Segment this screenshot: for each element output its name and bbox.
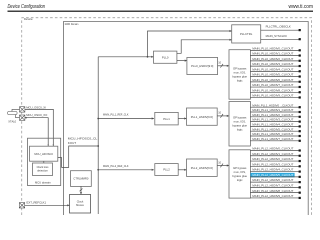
svg-text:logic: logic: [237, 128, 243, 132]
wire MAIN_PLL0_HSDIV8_CLKOUT: [250, 88, 300, 93]
svg-text:MAIN_PLL0_HSDIV3_CLKOUT: MAIN_PLL0_HSDIV3_CLKOUT: [252, 62, 293, 66]
wire MAIN_PLL1_HSDIV6_CLKOUT: [250, 132, 300, 137]
svg-text:bypass glue: bypass glue: [232, 74, 247, 78]
wire PLL1_HSDIV to bypass mux: [217, 111, 229, 118]
svg-text:MCU_HFOSC0_CL: MCU_HFOSC0_CL: [68, 136, 98, 140]
node PLL2 bypass mux: [229, 150, 250, 198]
pll PLL1: [155, 112, 178, 125]
node www.ti.com: [289, 4, 314, 10]
node Clock loss detection: [33, 163, 53, 176]
svg-text:MAIN_PLL0_HSDIV5_CLKOUT: MAIN_PLL0_HSDIV5_CLKOUT: [252, 73, 293, 77]
wire MAIN_PLL0_HSDIV9_CLKOUT: [250, 94, 300, 99]
wire MAIN_PLL1_HSDIV7_CLKOUT: [250, 137, 300, 142]
svg-text:MCU_OSC0_XO: MCU_OSC0_XO: [26, 113, 48, 117]
wire MCU_HFOSC0 to clock-loss: [43, 161, 45, 163]
node MAIN Domain boundary: [64, 22, 309, 216]
wire XTAL0 to pads: [12, 109, 20, 117]
pll PLL2: [155, 164, 178, 176]
wire MAIN_PLL0_HSDIV1_CLKOUT: [250, 52, 300, 57]
svg-text:Device: Device: [24, 17, 33, 21]
svg-text:MAIN_PLL0_HSDIV9_CLKOUT: MAIN_PLL0_HSDIV9_CLKOUT: [252, 94, 293, 98]
pin EXT_REFCLK1: [19, 201, 46, 208]
wire MAIN_PLL1_HSDIV5_CLKOUT: [250, 127, 300, 132]
wire PLL2_HSDIV to bypass mux: [217, 160, 229, 167]
svg-text:MAIN_SYSCLK0: MAIN_SYSCLK0: [266, 34, 288, 38]
svg-text:MAIN Domain: MAIN Domain: [65, 22, 79, 26]
svg-text:MCU_OSC0_XI: MCU_OSC0_XI: [26, 106, 46, 110]
wire MAIN_SYSCLK0 output: [261, 34, 301, 40]
svg-text:MAIN_PLL1_HSDIV0 _CLKOUT: MAIN_PLL1_HSDIV0 _CLKOUT: [252, 103, 293, 107]
svg-text:PLL2: PLL2: [163, 168, 170, 172]
svg-text:Clock loss: Clock loss: [37, 165, 50, 169]
svg-text:MAIN_PLL0_HSDIV2_CLKOUT: MAIN_PLL0_HSDIV2_CLKOUT: [252, 57, 293, 61]
wire MAIN_PLL0 reference: [98, 56, 153, 58]
svg-text:PLL0: PLL0: [162, 55, 169, 59]
wire MAIN_PLL1_REF_CLK: [97, 113, 154, 120]
wire MAIN_PLL0_HSDIV3_CLKOUT: [250, 62, 300, 67]
svg-text:MAIN_PLL0_HSDIV4_CLKOUT: MAIN_PLL0_HSDIV4_CLKOUT: [252, 67, 293, 71]
svg-text:MAIN_PLL1_HSDIV5_CLKOUT: MAIN_PLL1_HSDIV5_CLKOUT: [252, 127, 293, 131]
svg-text:XTAL0: XTAL0: [8, 120, 16, 124]
wire CTRLMMR0 to Clock Muxes: [80, 186, 83, 194]
svg-text:MAIN_PLL0_HSDIV8_CLKOUT: MAIN_PLL0_HSDIV8_CLKOUT: [252, 88, 293, 92]
svg-text:PLL1: PLL1: [163, 117, 170, 121]
svg-text:MAIN_PLL1_HSDIV1_CLKOUT: MAIN_PLL1_HSDIV1_CLKOUT: [252, 108, 293, 112]
crystal XTAL0: [8, 111, 18, 123]
svg-text:MAIN_PLL2_HSDIV5_CLKOUT: MAIN_PLL2_HSDIV5_CLKOUT: [252, 173, 293, 177]
svg-text:PLL2_HSDIV[9:0]: PLL2_HSDIV[9:0]: [191, 166, 213, 170]
wire PLL0 to PLL0_HSDIV: [177, 60, 187, 62]
wire MAIN_PLL2_HSDIV6_CLKOUT: [250, 178, 300, 183]
wire MCU_OSC0_XI to MCU_HFOSC0: [25, 109, 54, 146]
svg-text:EXT_REFCLK1: EXT_REFCLK1: [27, 201, 47, 205]
svg-text:PLL1_HSDIV[9:0]: PLL1_HSDIV[9:0]: [191, 115, 213, 119]
pin MCU_OSC0_XI: [20, 106, 47, 113]
pin MCU_OSC0_XO: [20, 113, 49, 120]
svg-text:GP bypass: GP bypass: [233, 66, 247, 70]
svg-text:MAIN_PLL2_HSDIV0_CLKOUT: MAIN_PLL2_HSDIV0_CLKOUT: [252, 147, 293, 151]
wire MCU_HFOSC0_CLKOUT: [58, 136, 99, 167]
wire MCU_OSC0_XO to MCU_HFOSC0: [25, 117, 49, 146]
wire MAIN_PLL0_HSDIV6_CLKOUT: [250, 78, 300, 83]
svg-text:MAIN_PLL0_HSDIV6_CLKOUT: MAIN_PLL0_HSDIV6_CLKOUT: [252, 78, 293, 82]
wire MAIN_PLL0_HSDIV0_CLKOUT: [250, 47, 300, 52]
node PLLCTRL: [232, 25, 261, 43]
svg-text:MAIN_PLL2_HSDIV2_CLKOUT: MAIN_PLL2_HSDIV2_CLKOUT: [252, 157, 293, 161]
wire PLL1 to PLL1_HSDIV: [178, 117, 186, 119]
svg-text:mux, IOS,: mux, IOS,: [234, 170, 246, 174]
svg-text:mux, IOS,: mux, IOS,: [234, 120, 246, 124]
svg-text:logic: logic: [237, 178, 243, 182]
wire MAIN_PLL2_HSDIV1_CLKOUT: [250, 152, 300, 157]
svg-text:GP bypass: GP bypass: [233, 166, 247, 170]
node title: Device Configuration: [8, 4, 46, 10]
wire MAIN_PLL2_REF_CLK: [97, 164, 154, 171]
svg-text:mux, IOS,: mux, IOS,: [234, 70, 246, 74]
wire MAIN_PLL1_HSDIV1_CLKOUT: [250, 108, 300, 113]
svg-text:MAIN_PLL2_HSDIV6_CLKOUT: MAIN_PLL2_HSDIV6_CLKOUT: [252, 178, 293, 182]
wire reference clock bus: [97, 57, 99, 214]
node PLL0 bypass mux: [229, 50, 250, 99]
wire MAIN_PLL2_HSDIV8_CLKOUT: [250, 189, 300, 194]
node MCU domain boundary: [28, 138, 61, 185]
wire MAIN_PLL2_HSDIV5_CLKOUT: [250, 173, 300, 178]
node CTRLMMR0: [71, 171, 92, 187]
svg-text:MAIN_PLL0_HSDIV0_CLKOUT: MAIN_PLL0_HSDIV0_CLKOUT: [252, 47, 293, 51]
wire MAIN_PLL0_HSDIV2_CLKOUT: [250, 57, 300, 62]
wire MAIN_PLL2_HSDIV4_CLKOUT: [250, 168, 300, 173]
svg-text:MAIN_PLL2_HSDIV9_CLKOUT: MAIN_PLL2_HSDIV9_CLKOUT: [252, 194, 293, 198]
svg-text:MAIN_PLL2_REF_CLK: MAIN_PLL2_REF_CLK: [103, 164, 129, 168]
svg-text:MCU domain: MCU domain: [35, 181, 51, 185]
svg-text:MAIN_PLL2_HSDIV7_CLKOUT: MAIN_PLL2_HSDIV7_CLKOUT: [252, 183, 293, 187]
wire PLLCTRL reference input: [148, 30, 232, 57]
wire EXT_REFCLK1 to Clock Muxes: [25, 204, 70, 206]
svg-text:PLL0_HSDIV[9:0]: PLL0_HSDIV[9:0]: [191, 64, 213, 68]
svg-text:MAIN_PLL1_HSDIV2_CLKOUT: MAIN_PLL1_HSDIV2_CLKOUT: [252, 113, 293, 117]
wire PLL0_HSDIV to bypass mux: [218, 61, 229, 68]
svg-text:KOUT: KOUT: [68, 141, 77, 145]
divider PLL1_HSDIV[9:0]: [187, 108, 218, 125]
wire PLL0 to PLLCTRL: [177, 39, 232, 54]
svg-text:MAIN_PLL2_HSDIV8_CLKOUT: MAIN_PLL2_HSDIV8_CLKOUT: [252, 189, 293, 193]
wire MAIN_PLL2_HSDIV0_CLKOUT: [250, 147, 300, 152]
wire MAIN_PLL0_HSDIV4_CLKOUT: [250, 67, 300, 72]
svg-text:MCU_HFOSC0: MCU_HFOSC0: [34, 152, 53, 156]
svg-text:www.ti.com: www.ti.com: [289, 4, 314, 10]
wire MAIN_PLL1_HSDIV2_CLKOUT: [250, 113, 300, 118]
svg-text:MAIN_PLL0_HSDIV7_CLKOUT: MAIN_PLL0_HSDIV7_CLKOUT: [252, 83, 293, 87]
divider PLL0_HSDIV[9:0]: [187, 58, 218, 75]
svg-text:logic: logic: [237, 78, 243, 82]
svg-text:MAIN_PLL2_HSDIV3_CLKOUT: MAIN_PLL2_HSDIV3_CLKOUT: [252, 162, 293, 166]
wire MAIN_PLL2_HSDIV7_CLKOUT: [250, 183, 300, 188]
oscillator MCU_HFOSC0: [30, 146, 58, 161]
svg-text:MAIN_PLL2_HSDIV1_CLKOUT: MAIN_PLL2_HSDIV1_CLKOUT: [252, 152, 293, 156]
svg-text:Clock: Clock: [77, 199, 84, 203]
wire MAIN_PLL2_HSDIV9_CLKOUT: [250, 194, 300, 199]
svg-text:MAIN_PLL1_REF_CLK: MAIN_PLL1_REF_CLK: [103, 113, 129, 117]
svg-text:MAIN_PLL1_HSDIV6_CLKOUT: MAIN_PLL1_HSDIV6_CLKOUT: [252, 132, 293, 136]
node Clock Muxes: [70, 195, 91, 214]
wire MAIN_PLL1_HSDIV4_CLKOUT: [250, 123, 300, 128]
svg-text:MAIN_PLL1_HSDIV4_CLKOUT: MAIN_PLL1_HSDIV4_CLKOUT: [252, 123, 293, 127]
wire MAIN_PLL2_HSDIV3_CLKOUT: [250, 162, 300, 167]
svg-text:bypass glue: bypass glue: [232, 124, 247, 128]
svg-text:MAIN_PLL2_HSDIV4_CLKOUT: MAIN_PLL2_HSDIV4_CLKOUT: [252, 168, 293, 172]
svg-text:MAIN_PLL0_HSDIV1_CLKOUT: MAIN_PLL0_HSDIV1_CLKOUT: [252, 52, 293, 56]
divider PLL2_HSDIV[9:0]: [187, 159, 218, 176]
svg-text:PLLCTRL: PLLCTRL: [240, 32, 253, 36]
svg-text:MAIN_PLL1_HSDIV3_CLKOUT: MAIN_PLL1_HSDIV3_CLKOUT: [252, 118, 293, 122]
wire MAIN_PLL1_HSDIV0_CLKOUT: [250, 103, 300, 108]
wire PLL2 to PLL2_HSDIV: [178, 169, 186, 171]
svg-text:bypass glue: bypass glue: [232, 174, 247, 178]
wire MAIN_PLL1_HSDIV3_CLKOUT: [250, 118, 300, 123]
wire MAIN_PLL0_HSDIV5_CLKOUT: [250, 73, 300, 78]
svg-text:MAIN_PLL1_HSDIV7_CLKOUT: MAIN_PLL1_HSDIV7_CLKOUT: [252, 137, 293, 141]
wire PLLCTRL_OBSCLK output: [261, 25, 301, 32]
pll PLL0: [154, 51, 177, 63]
svg-text:GP bypass: GP bypass: [233, 116, 247, 120]
wire MAIN_PLL2_HSDIV2_CLKOUT: [250, 157, 300, 162]
wire MAIN_PLL0_HSDIV7_CLKOUT: [250, 83, 300, 88]
node Device boundary: [22, 17, 312, 215]
svg-text:detection: detection: [37, 168, 48, 172]
svg-text:Muxes: Muxes: [76, 203, 84, 207]
wire header rule: [8, 11, 314, 12]
svg-text:CTRLMMR0: CTRLMMR0: [73, 177, 88, 181]
svg-text:Device Configuration: Device Configuration: [8, 4, 46, 10]
svg-text:PLLCTRL_OBSCLK: PLLCTRL_OBSCLK: [266, 25, 291, 29]
node PLL1 bypass mux: [229, 102, 250, 147]
